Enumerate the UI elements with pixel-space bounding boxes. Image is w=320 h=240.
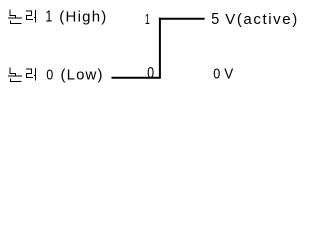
- svg-text:1: 1: [45, 9, 52, 26]
- svg-text:1: 1: [145, 11, 150, 28]
- wire: rising-edge vertical segment: [159, 18, 161, 79]
- svg-text:5: 5: [211, 11, 219, 28]
- wire: logic-0 low-level segment: [112, 77, 160, 79]
- node label 논리 0 (Low): hangul 논 (bottom): [8, 67, 22, 82]
- svg-text:0: 0: [46, 67, 53, 84]
- node label 논리 0 (Low): hangul 리 (bottom): [26, 68, 36, 81]
- svg-text:0: 0: [147, 65, 154, 82]
- node label 논리 1 (High): hangul 리 (top): [26, 10, 36, 23]
- wire: logic-1 high-level segment: [159, 18, 205, 20]
- svg-text:V: V: [224, 66, 233, 83]
- node label 논리 1 (High): hangul 논 (top): [8, 9, 22, 24]
- svg-text:0: 0: [213, 66, 220, 83]
- svg-text:(High): (High): [59, 9, 106, 26]
- svg-text:(Low): (Low): [61, 67, 103, 84]
